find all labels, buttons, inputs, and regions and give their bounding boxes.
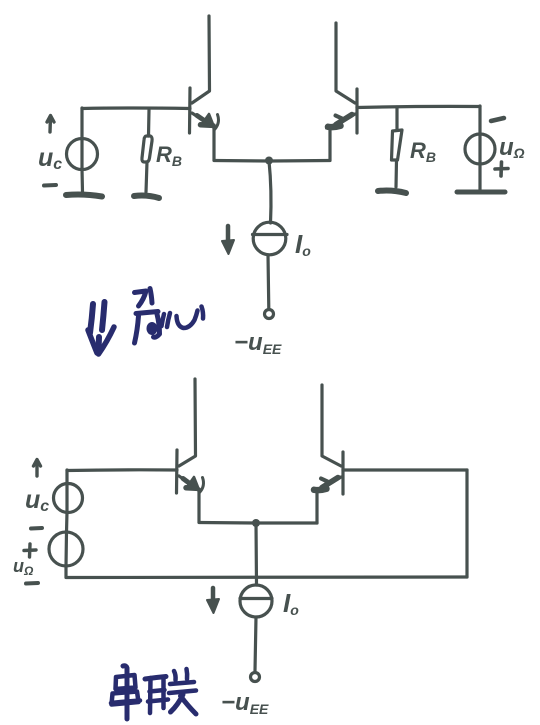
wire emitter Q3 to node <box>199 521 256 525</box>
wire through circles left <box>66 484 67 566</box>
wire emitter Q2 to node <box>270 159 330 163</box>
wire base left Q3 <box>67 468 177 472</box>
wire emitter Q1 to node <box>214 159 270 163</box>
transistor Q1 emitter <box>192 113 212 126</box>
ground Uomega <box>457 190 505 195</box>
node emitters bottom <box>252 519 260 527</box>
transistor Q3 base bar <box>175 450 179 493</box>
voltage source Uomega wire top <box>478 106 481 134</box>
terminal -UEE top <box>265 310 274 319</box>
current source I0 top <box>253 222 286 255</box>
wire node to current source <box>269 161 271 223</box>
wire current source to -UEE terminal <box>266 255 270 309</box>
transistor Q1 emitter arrowhead <box>201 122 211 128</box>
current source I0 bottom <box>240 585 272 617</box>
transistor Q4 collector wire <box>322 385 341 466</box>
transistor Q4 base bar <box>341 452 344 494</box>
wire node to current source bottom <box>254 523 258 585</box>
transistor Q2 base bar <box>355 89 358 133</box>
transistor Q3 collector wire <box>179 379 196 466</box>
current arrow I0 top <box>226 226 231 246</box>
blue text chuanlian (series) <box>111 666 196 719</box>
ground RB1 <box>134 196 159 198</box>
blue arrow down (jianhua) <box>88 302 114 354</box>
ground RB2 <box>378 191 406 193</box>
label minus Uomega <box>491 118 504 121</box>
ground Uc <box>66 195 102 197</box>
wire right rail <box>465 470 468 577</box>
wire between sources <box>65 512 69 532</box>
node emitters top <box>265 157 273 165</box>
resistor RB1 lead bottom <box>146 162 147 192</box>
transistor Q1 base bar <box>188 88 192 133</box>
blue text jianhua (simplify) <box>135 289 204 344</box>
resistor RB1 lead top <box>147 110 151 136</box>
wire bottom rail <box>66 575 467 579</box>
wire Uomega to ground <box>478 164 481 190</box>
voltage source Uc top wire <box>80 108 83 139</box>
transistor Q2 collector wire <box>336 23 355 103</box>
resistor RB2 lead top <box>395 107 398 130</box>
wire base right Q2 <box>357 106 480 107</box>
transistor Q2 emitter arrowhead <box>328 126 341 127</box>
wire Uc to ground <box>80 169 84 192</box>
wire current source to terminal bottom <box>255 617 256 671</box>
label plus Uomega <box>495 162 508 176</box>
label plus Uomega bottom <box>24 544 36 557</box>
wire base right Q4 <box>343 468 467 471</box>
transistor Q3 emitter arrowhead <box>186 485 196 491</box>
transistor Q2 emitter <box>333 114 355 127</box>
wire emitter Q4 to node <box>256 521 317 524</box>
resistor RB1 body <box>142 136 152 162</box>
wire base left Q1 <box>82 106 190 110</box>
voltage source Uomega bottom circle <box>49 532 83 566</box>
label minus bottom <box>26 581 38 586</box>
voltage source Uc bottom circle <box>65 470 68 484</box>
voltage source Uomega circle <box>465 134 495 164</box>
label minus mid <box>31 526 42 531</box>
current arrow I0 bottom <box>211 588 216 604</box>
resistor RB2 lead bottom <box>394 160 398 187</box>
label + arrow Uc bottom <box>34 460 41 477</box>
resistor RB2 body <box>392 130 403 160</box>
transistor Q4 emitter arrowhead <box>314 489 327 490</box>
terminal -UEE bottom <box>251 673 260 682</box>
voltage source Uc circle <box>67 139 98 170</box>
transistor Q3 emitter <box>179 476 197 489</box>
transistor Q1 collector wire <box>192 16 210 103</box>
label minus Uc <box>44 183 56 188</box>
label + arrow Uc <box>47 116 54 133</box>
transistor Q4 emitter <box>320 477 341 490</box>
